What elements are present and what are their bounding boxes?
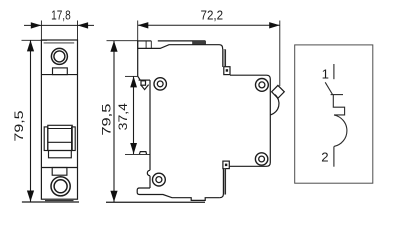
extension line right of 17.8 <box>77 21 79 41</box>
terminal 2 wire <box>333 146 335 166</box>
side body left edge <box>137 41 139 76</box>
toggle rocker <box>48 125 72 150</box>
front view foot line <box>45 200 74 202</box>
79.5 dimension line <box>30 40 32 202</box>
rivet upper-right inner <box>259 82 265 88</box>
37.4 up arrow <box>130 76 137 87</box>
72.2 left arrow <box>138 22 149 28</box>
rivet lower-left outer <box>153 173 166 186</box>
rivet upper-left inner <box>157 81 163 87</box>
rivet upper-right outer <box>256 79 269 92</box>
fixed contact dash <box>331 94 343 96</box>
toggle frame right bar <box>72 127 76 151</box>
svg-text:17,8: 17,8 <box>51 9 71 22</box>
37.4 down arrow <box>130 143 137 154</box>
toggle side view V mark <box>141 85 149 90</box>
label 79,5 (front) <box>12 110 25 141</box>
terminal 1 wire <box>333 64 335 79</box>
right extension line <box>279 21 281 87</box>
din tab strip edge <box>225 50 227 67</box>
17.8 left arrow <box>31 22 42 28</box>
rib end tick <box>204 41 206 45</box>
79.5 side dimension line <box>113 41 115 203</box>
back lower edge with grey shadow <box>223 169 225 195</box>
top extension line <box>22 39 48 41</box>
rivet lower-left inner <box>156 177 162 183</box>
label 79,5 (side) <box>101 103 114 135</box>
top extension line <box>125 75 138 77</box>
front plateau edge <box>149 80 151 188</box>
svg-text:37,4: 37,4 <box>116 103 130 130</box>
small square bottom with rivet <box>223 161 229 169</box>
left extension line <box>137 21 139 49</box>
17.8 dimension line <box>24 24 94 26</box>
svg-text:72,2: 72,2 <box>201 8 224 23</box>
79.5 down arrow <box>27 191 34 202</box>
rivet lower-right inner <box>259 156 265 162</box>
rivet upper-left outer <box>154 78 166 90</box>
bottom extension line <box>106 201 205 203</box>
toggle side view diagonal <box>138 76 141 80</box>
thermal release element <box>333 95 344 115</box>
back top edge <box>230 75 270 111</box>
bottom terminal screw outer circle <box>51 177 70 196</box>
plateau notch semicircle <box>147 170 150 175</box>
side body top edge stepped <box>138 45 223 67</box>
din tab grey strip <box>223 49 226 66</box>
top rib segment 1 <box>138 40 152 42</box>
toggle lower plate <box>49 151 72 158</box>
breaker body front view <box>41 40 77 199</box>
top rib segment 2 <box>158 40 206 42</box>
72.2 dimension line <box>138 24 280 26</box>
top terminal screw inner circle <box>54 51 65 62</box>
svg-text:79,5: 79,5 <box>101 103 114 135</box>
rib tick c <box>192 41 194 45</box>
bottom terminal screw inner circle <box>54 180 67 193</box>
top extension line <box>107 40 138 42</box>
rib tick b <box>150 41 152 49</box>
svg-text:2: 2 <box>321 150 328 165</box>
bottom extension line <box>125 153 150 155</box>
toggle split line <box>48 141 72 143</box>
top terminal clamp <box>53 68 68 75</box>
bottom extension line <box>22 201 79 203</box>
label 37,4 <box>116 103 130 130</box>
toggle top face line <box>48 128 72 130</box>
79.5 up arrow <box>27 40 34 51</box>
toggle side view square <box>141 81 146 85</box>
79.5 side up arrow <box>110 41 117 52</box>
extension line left of 17.8 <box>40 21 42 41</box>
switch blade <box>325 82 332 94</box>
rib tick a <box>145 41 147 49</box>
lower toggle stop trapezoid <box>139 152 146 155</box>
right edge lower <box>230 111 271 166</box>
bottom terminal clamp <box>52 168 67 176</box>
rib dark filled segment <box>193 41 206 45</box>
bottom-left step and bottom edge <box>137 188 219 200</box>
schematic frame <box>295 45 373 183</box>
svg-text:1: 1 <box>322 66 329 81</box>
17.8 right arrow <box>78 22 89 28</box>
79.5 side down arrow <box>110 191 117 202</box>
rivet lower-right outer <box>255 153 267 165</box>
top terminal screw outer circle <box>51 48 67 64</box>
label 17,8 <box>51 9 71 22</box>
toggle side view top <box>139 79 150 81</box>
bottom section divider <box>41 167 77 169</box>
din clip spring arc <box>270 95 279 115</box>
din latch diamond <box>272 85 285 98</box>
top section divider <box>41 74 77 76</box>
37.4 dimension line <box>133 76 135 154</box>
label 72,2 <box>201 8 224 23</box>
small square top with rivet <box>224 67 230 75</box>
72.2 right arrow <box>269 22 280 28</box>
lid line <box>44 42 75 44</box>
toggle frame left bar <box>44 127 48 151</box>
magnetic release arc <box>334 115 347 146</box>
svg-text:79,5: 79,5 <box>12 110 25 141</box>
